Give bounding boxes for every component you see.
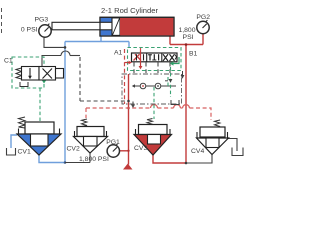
svg-text:CV3: CV3 xyxy=(134,145,147,152)
svg-text:B1: B1 xyxy=(189,51,198,58)
svg-text:1,800 PSI: 1,800 PSI xyxy=(79,156,109,163)
svg-text:0 PSI: 0 PSI xyxy=(21,27,38,34)
svg-text:CV1: CV1 xyxy=(18,149,31,156)
svg-text:PG3: PG3 xyxy=(35,17,49,24)
svg-text:A1: A1 xyxy=(114,50,123,57)
svg-text:CV2: CV2 xyxy=(67,146,80,153)
svg-text:PSI: PSI xyxy=(183,34,194,41)
svg-text:PG1: PG1 xyxy=(106,139,120,146)
svg-text:2-1 Rod Cylinder: 2-1 Rod Cylinder xyxy=(101,6,158,15)
svg-text:C1: C1 xyxy=(4,58,13,65)
svg-text:PG2: PG2 xyxy=(196,14,210,21)
svg-text:1,800: 1,800 xyxy=(178,27,195,34)
svg-text:CV4: CV4 xyxy=(191,148,204,155)
